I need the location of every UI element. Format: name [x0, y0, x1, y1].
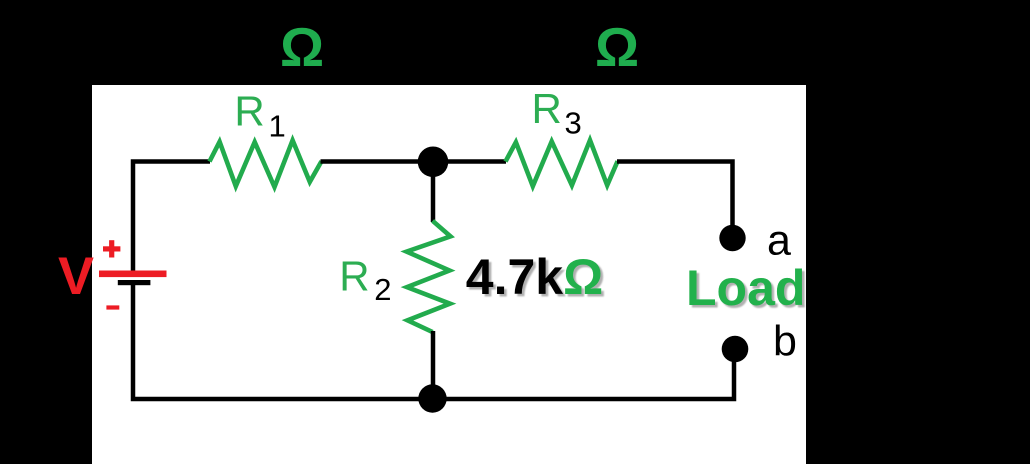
battery V: positive plate (red, long)	[99, 271, 167, 278]
svg-text:3: 3	[565, 106, 582, 141]
svg-text:2: 2	[374, 272, 391, 307]
node A (top junction)	[418, 147, 449, 178]
svg-text:Ω: Ω	[595, 16, 639, 78]
wire: R3 to right corner, down to terminal a	[617, 162, 733, 227]
wire: top-left horizontal (battery top to R1)	[133, 162, 210, 272]
svg-text:V: V	[58, 247, 94, 306]
resistor R1	[210, 140, 322, 187]
svg-text:Ω: Ω	[280, 16, 324, 78]
wire: node A to R3	[433, 159, 506, 164]
svg-text:4.7kΩ: 4.7kΩ	[466, 249, 603, 305]
bottom node junction	[418, 384, 446, 412]
svg-text:Load: Load	[686, 260, 805, 316]
wire: R2 to bottom node	[431, 331, 436, 399]
battery V: negative plate (black, short)	[118, 280, 151, 285]
svg-text:R: R	[234, 88, 264, 135]
battery polarity label +	[103, 246, 120, 251]
terminal b (node)	[722, 336, 749, 363]
terminal a (node)	[719, 225, 745, 251]
wire: bottom horizontal (battery bottom to load bottom corner)	[133, 284, 734, 399]
svg-text:R: R	[339, 253, 369, 300]
wire: R1 to node A	[321, 159, 434, 164]
svg-text:1: 1	[269, 109, 286, 144]
battery polarity label -	[106, 305, 119, 309]
svg-text:b: b	[773, 317, 797, 365]
resistor R3	[506, 140, 618, 186]
svg-text:a: a	[767, 217, 791, 265]
svg-text:R: R	[532, 85, 562, 132]
wire: node A down to R2	[431, 162, 436, 222]
resistor R2 (vertical)	[407, 221, 451, 332]
